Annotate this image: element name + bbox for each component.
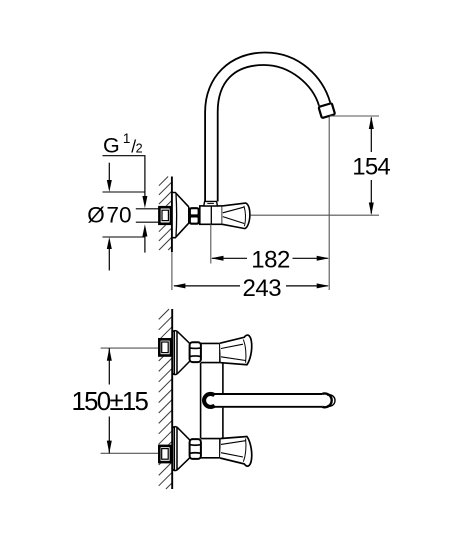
svg-text:G: G	[103, 133, 120, 157]
G1/2 arrow lower (points up)	[142, 224, 147, 236]
thread lines G1/2	[136, 208, 160, 210]
svg-text:2: 2	[136, 142, 143, 156]
wall extension to 243 dim	[171, 252, 173, 290]
G1/2 arrow upper (points down at thread)	[142, 196, 147, 208]
dim 182	[211, 247, 329, 274]
dim 243	[173, 275, 329, 302]
dim 150±15	[72, 348, 149, 453]
svg-text:154: 154	[352, 154, 390, 181]
valve body hot	[201, 343, 222, 362]
square union fitting	[159, 207, 171, 224]
spout tube inner edge	[218, 65, 319, 201]
svg-text:182: 182	[251, 247, 290, 274]
spout axis extension (182 left ref)	[210, 224, 212, 263]
wall hatching (top drawing)	[159, 177, 172, 251]
extension line cold inlet	[101, 452, 159, 454]
spout tube outer edge	[205, 53, 330, 202]
wall hatching (bottom drawing)	[159, 309, 173, 489]
wall line (bottom drawing)	[171, 309, 173, 489]
aerator tip	[319, 103, 336, 118]
central column	[200, 363, 202, 439]
escutcheon hot	[172, 331, 189, 375]
valve body (top drawing)	[200, 206, 223, 224]
square union hot	[159, 339, 171, 355]
nut cold	[190, 439, 201, 459]
wall line (top drawing)	[171, 177, 173, 253]
spout end cap	[322, 394, 331, 408]
svg-text:70: 70	[106, 203, 131, 228]
handle knob (top drawing)	[222, 203, 250, 229]
svg-text:150±15: 150±15	[72, 388, 149, 416]
handle knob cold	[220, 437, 252, 467]
spout tip extension down (182/243 right ref)	[328, 117, 330, 290]
centerline extension (154 bottom ref)	[251, 214, 379, 216]
G1/2 leader underline	[103, 156, 145, 197]
valve body cold	[201, 439, 222, 458]
handle knob hot	[220, 335, 252, 365]
spout elbow (thick)	[204, 394, 215, 407]
riser collar	[204, 201, 218, 206]
escutcheon cold	[172, 427, 189, 471]
nut (top drawing)	[190, 208, 199, 215]
svg-text:1: 1	[123, 131, 131, 146]
dim 154	[352, 116, 390, 215]
escutcheon (top drawing)	[172, 193, 189, 238]
svg-text:Ø: Ø	[87, 203, 105, 228]
extension line hot inlet	[101, 347, 159, 349]
dia70 extension lines	[103, 191, 145, 193]
square union cold	[159, 446, 171, 462]
spout tube (bottom drawing)	[212, 395, 322, 406]
dia 70 text	[87, 203, 131, 228]
G 1/2 label	[103, 131, 143, 158]
svg-text:243: 243	[243, 275, 282, 302]
spout tip extension right (154 top ref)	[330, 115, 380, 117]
nut hot	[190, 342, 201, 362]
dia70 arrows	[108, 163, 110, 180]
